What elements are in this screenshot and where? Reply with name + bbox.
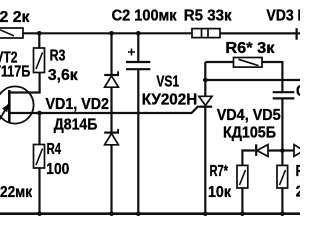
wire rail to C2 — [137, 33, 139, 61]
node dot VD4-VD5-C3 — [280, 148, 285, 153]
wire VD2 to bottom rail — [110, 145, 112, 215]
node dot bottom R4 — [37, 211, 42, 216]
wire rail to VD1 — [110, 33, 112, 74]
resistor R2 — [0, 28, 23, 38]
node dot bottom C2 — [136, 211, 141, 216]
wire VD4 to VD5 — [268, 149, 294, 151]
wire top rail left — [23, 32, 192, 34]
node dot bottom R8 — [280, 211, 285, 216]
svg-text:VS1: VS1 — [156, 73, 179, 90]
svg-text:2к: 2к — [296, 184, 300, 201]
svg-text:R3: R3 — [50, 47, 66, 64]
wire top rail right — [220, 32, 300, 34]
svg-text:22мк: 22мк — [0, 184, 33, 201]
resistor R5 — [192, 29, 220, 38]
resistor R4 — [34, 145, 45, 169]
capacitor C2 — [126, 49, 150, 70]
svg-text:КТ117Б: КТ117Б — [0, 64, 30, 81]
wire C3 bottom to VD4 line and R8 — [281, 99, 283, 165]
svg-text:КД105Б: КД105Б — [223, 125, 276, 142]
svg-text:VD1, VD2: VD1, VD2 — [46, 96, 110, 113]
diode VD5 — [294, 145, 304, 157]
wire C2 to bottom rail — [137, 70, 139, 214]
wire R8 to bottom rail — [281, 188, 283, 214]
node dot bottom VS1 — [203, 211, 208, 216]
resistor R7 — [237, 165, 248, 188]
node dot rail-C2 — [136, 31, 141, 36]
diode VD4 — [256, 144, 268, 156]
wire R7 corner to VD4 — [242, 151, 255, 166]
svg-text:С3: С3 — [296, 83, 300, 100]
resistor R6 — [234, 58, 263, 68]
node dot rail-R3 — [37, 31, 42, 36]
zener diode VD1 — [104, 71, 119, 87]
wire base1 to R4 — [38, 113, 40, 145]
capacitor C3 — [273, 92, 295, 98]
wire anode to C3 top — [205, 79, 300, 81]
wire bottom rail — [0, 212, 300, 215]
node dot VS1 anode — [203, 78, 208, 83]
transistor VT2 emitter arrow — [0, 104, 9, 123]
wire stub down to C3 top plate — [281, 80, 283, 91]
zener diode VD2 — [104, 129, 119, 145]
svg-text:R4: R4 — [47, 141, 61, 158]
wire R4 to bottom rail — [38, 168, 40, 214]
node dot bottom R7 — [240, 211, 245, 216]
wire R6 left lead — [205, 61, 233, 63]
node dot base1-R4 — [37, 111, 42, 116]
svg-text:VD4, VD5: VD4, VD5 — [217, 107, 281, 124]
svg-text:3,6к: 3,6к — [48, 67, 79, 84]
svg-text:С2 100мк: С2 100мк — [112, 7, 178, 24]
svg-text:R6* 3к: R6* 3к — [225, 40, 275, 57]
node dot rail-VD1 — [109, 31, 114, 36]
svg-text:2 2к: 2 2к — [0, 9, 30, 26]
wire R6 right lead — [262, 62, 282, 80]
transistor VT2 circle — [0, 86, 34, 123]
diode VD3 cathode bar — [296, 28, 298, 40]
wire VS1 anode — [204, 62, 206, 96]
svg-text:VD3 К: VD3 К — [266, 7, 300, 24]
svg-text:100: 100 — [46, 161, 69, 178]
resistor R3 — [34, 48, 45, 73]
svg-text:R7*: R7* — [210, 163, 229, 180]
svg-text:R8*: R8* — [296, 163, 300, 180]
svg-text:КУ202Н: КУ202Н — [142, 92, 198, 109]
wire VD1 to VD2 — [110, 87, 112, 132]
node dot bottom VD2 — [109, 211, 114, 216]
wire R7 to bottom rail — [241, 188, 243, 214]
resistor R8 — [277, 165, 288, 188]
wire VT2 base1 gate line — [9, 106, 198, 113]
transistor VT2 base bar — [8, 90, 11, 123]
svg-text:10к: 10к — [208, 184, 232, 201]
wire VS1 cathode to bottom rail — [204, 107, 206, 214]
wire node A to R3 — [38, 33, 40, 48]
svg-text:Д814Б: Д814Б — [54, 116, 98, 133]
thyristor VS1 — [199, 96, 213, 106]
wire R3 to VT2 base2 — [9, 73, 39, 93]
svg-text:R5 33к: R5 33к — [184, 7, 233, 24]
